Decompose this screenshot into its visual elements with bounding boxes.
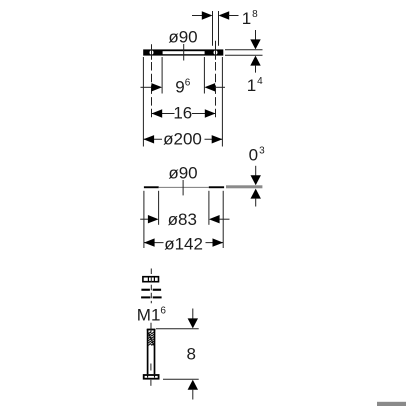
svg-text:ø200: ø200 bbox=[163, 130, 202, 149]
left screw hole bbox=[150, 51, 154, 55]
dimension 1.8 left extension line bbox=[212, 11, 214, 46]
center tick of plate bbox=[183, 44, 185, 61]
dimension 1.4 top arrow bbox=[250, 39, 260, 49]
svg-text:ø83: ø83 bbox=[168, 210, 197, 229]
dimension 8 top arrow stem bbox=[192, 309, 194, 320]
screw shaft left outline bbox=[147, 329, 149, 374]
washer thin middle line bbox=[159, 186, 209, 188]
dimension ø142 left extension line bbox=[143, 191, 145, 248]
dimension ø200 right extension line bbox=[221, 57, 223, 147]
centerline through nut and washers bbox=[150, 269, 152, 304]
svg-text:ø90: ø90 bbox=[168, 28, 197, 47]
right hole centerline (solid tick) bbox=[215, 41, 217, 60]
dimension 9.6 right leader bbox=[215, 86, 225, 88]
svg-text:ø142: ø142 bbox=[164, 235, 203, 254]
dimension ø83 right extension line bbox=[208, 191, 210, 225]
dimension 8 bottom arrow bbox=[188, 380, 198, 390]
thread hatching bbox=[148, 332, 154, 346]
screw tip cap line bbox=[147, 329, 156, 331]
washer 1 right half bbox=[153, 289, 161, 291]
washer 1 left half bbox=[141, 289, 150, 291]
washer left thick segment bbox=[144, 186, 159, 188]
washer 2 left half bbox=[141, 296, 150, 298]
dimension 9.6 left extension line bbox=[161, 57, 163, 94]
dimension ø200 left arrow bbox=[143, 135, 154, 143]
dimension ø83 left leader bbox=[140, 218, 148, 220]
head shaft line left bbox=[147, 375, 149, 378]
center tick of washer bbox=[182, 180, 184, 195]
nut inner facet line right bbox=[153, 276, 155, 282]
dimension 8 bottom extension line bbox=[163, 378, 199, 380]
dimension ø83 right leader bbox=[219, 218, 229, 220]
washer 2 right half bbox=[153, 296, 162, 298]
dimension 1.4 bottom arrow stem bbox=[255, 66, 257, 73]
dimension 1.8 right arrow bbox=[219, 11, 230, 19]
dimension ø200 line (right segment) bbox=[205, 138, 223, 140]
washer right thick segment bbox=[209, 186, 224, 188]
dimension 9.6 right arrow bbox=[204, 83, 215, 91]
dimension 16 right arrow bbox=[205, 109, 216, 117]
dimension ø200 line (left segment) bbox=[143, 138, 162, 140]
dimension 16 line (right segment) bbox=[192, 113, 216, 115]
dimension 1.8 left leader bbox=[192, 15, 202, 17]
screw shaft right outline bbox=[154, 329, 156, 374]
dimension 1.8 right leader bbox=[229, 15, 239, 17]
nut inner facet line left bbox=[147, 276, 149, 282]
screw centerline above bbox=[150, 323, 152, 332]
dimension 0.3 top arrow bbox=[251, 175, 261, 185]
dimension 1.4 bottom leader bbox=[225, 54, 263, 56]
screw centerline inside shaft bbox=[150, 364, 152, 371]
dimension 0.3 leader band (two merged lines) bbox=[226, 185, 262, 188]
head shaft line right bbox=[154, 375, 156, 378]
dimension ø142 line (right segment) bbox=[206, 242, 224, 244]
dimension 8 top arrow bbox=[188, 318, 198, 328]
plate cross-section bar bbox=[143, 49, 223, 55]
dimension ø83 right arrow bbox=[209, 215, 220, 223]
dimension 16 line (left segment) bbox=[152, 113, 175, 115]
dimension 9.6 left leader bbox=[141, 86, 152, 88]
dimension ø142 right arrow bbox=[213, 238, 224, 246]
dimension 0.3 bottom arrow bbox=[251, 189, 261, 199]
left hole centerline (solid tick) bbox=[151, 44, 153, 60]
plate recess (ø90 white inset) bbox=[163, 51, 205, 54]
dimension 1.4 top leader bbox=[225, 49, 263, 51]
left hole centerline (dashed, down to 16-dim) bbox=[151, 62, 153, 118]
dimension ø83 left extension line bbox=[158, 191, 160, 225]
dimension ø83 left arrow bbox=[148, 215, 159, 223]
svg-text:8: 8 bbox=[186, 345, 195, 364]
screw centerline below head bbox=[150, 380, 152, 386]
dimension ø200 left extension line bbox=[142, 57, 144, 147]
dimension 8 top extension line bbox=[156, 328, 199, 330]
dimension ø142 left arrow bbox=[144, 238, 155, 246]
svg-text:ø90: ø90 bbox=[168, 164, 197, 183]
dimension 1.4 top arrow stem bbox=[255, 30, 257, 41]
right hole centerline (dashed, down to 16-dim) bbox=[215, 62, 217, 118]
dimension 1.8 right extension line bbox=[218, 11, 220, 46]
dimension ø200 right arrow bbox=[212, 135, 223, 143]
dimension ø142 line (left segment) bbox=[144, 242, 164, 244]
nut side view outline bbox=[143, 277, 159, 282]
dimension 8 bottom arrow stem bbox=[192, 390, 194, 400]
dimension 1.4 bottom arrow bbox=[250, 56, 260, 66]
dimension 0.3 top arrow stem bbox=[255, 166, 257, 176]
gray artifact bar in bottom-right corner bbox=[377, 402, 406, 406]
dimension 16 left arrow bbox=[152, 109, 163, 117]
dimension 0.3 bottom arrow stem bbox=[255, 199, 257, 207]
dimension 9.6 left arrow bbox=[151, 83, 162, 91]
dimension ø142 right extension line bbox=[222, 191, 224, 248]
dimension 9.6 right extension line bbox=[203, 57, 205, 94]
right screw hole bbox=[214, 51, 218, 55]
svg-text:16: 16 bbox=[173, 104, 192, 123]
dimension 1.8 left arrow bbox=[202, 11, 213, 19]
screw head outline bbox=[144, 375, 159, 379]
